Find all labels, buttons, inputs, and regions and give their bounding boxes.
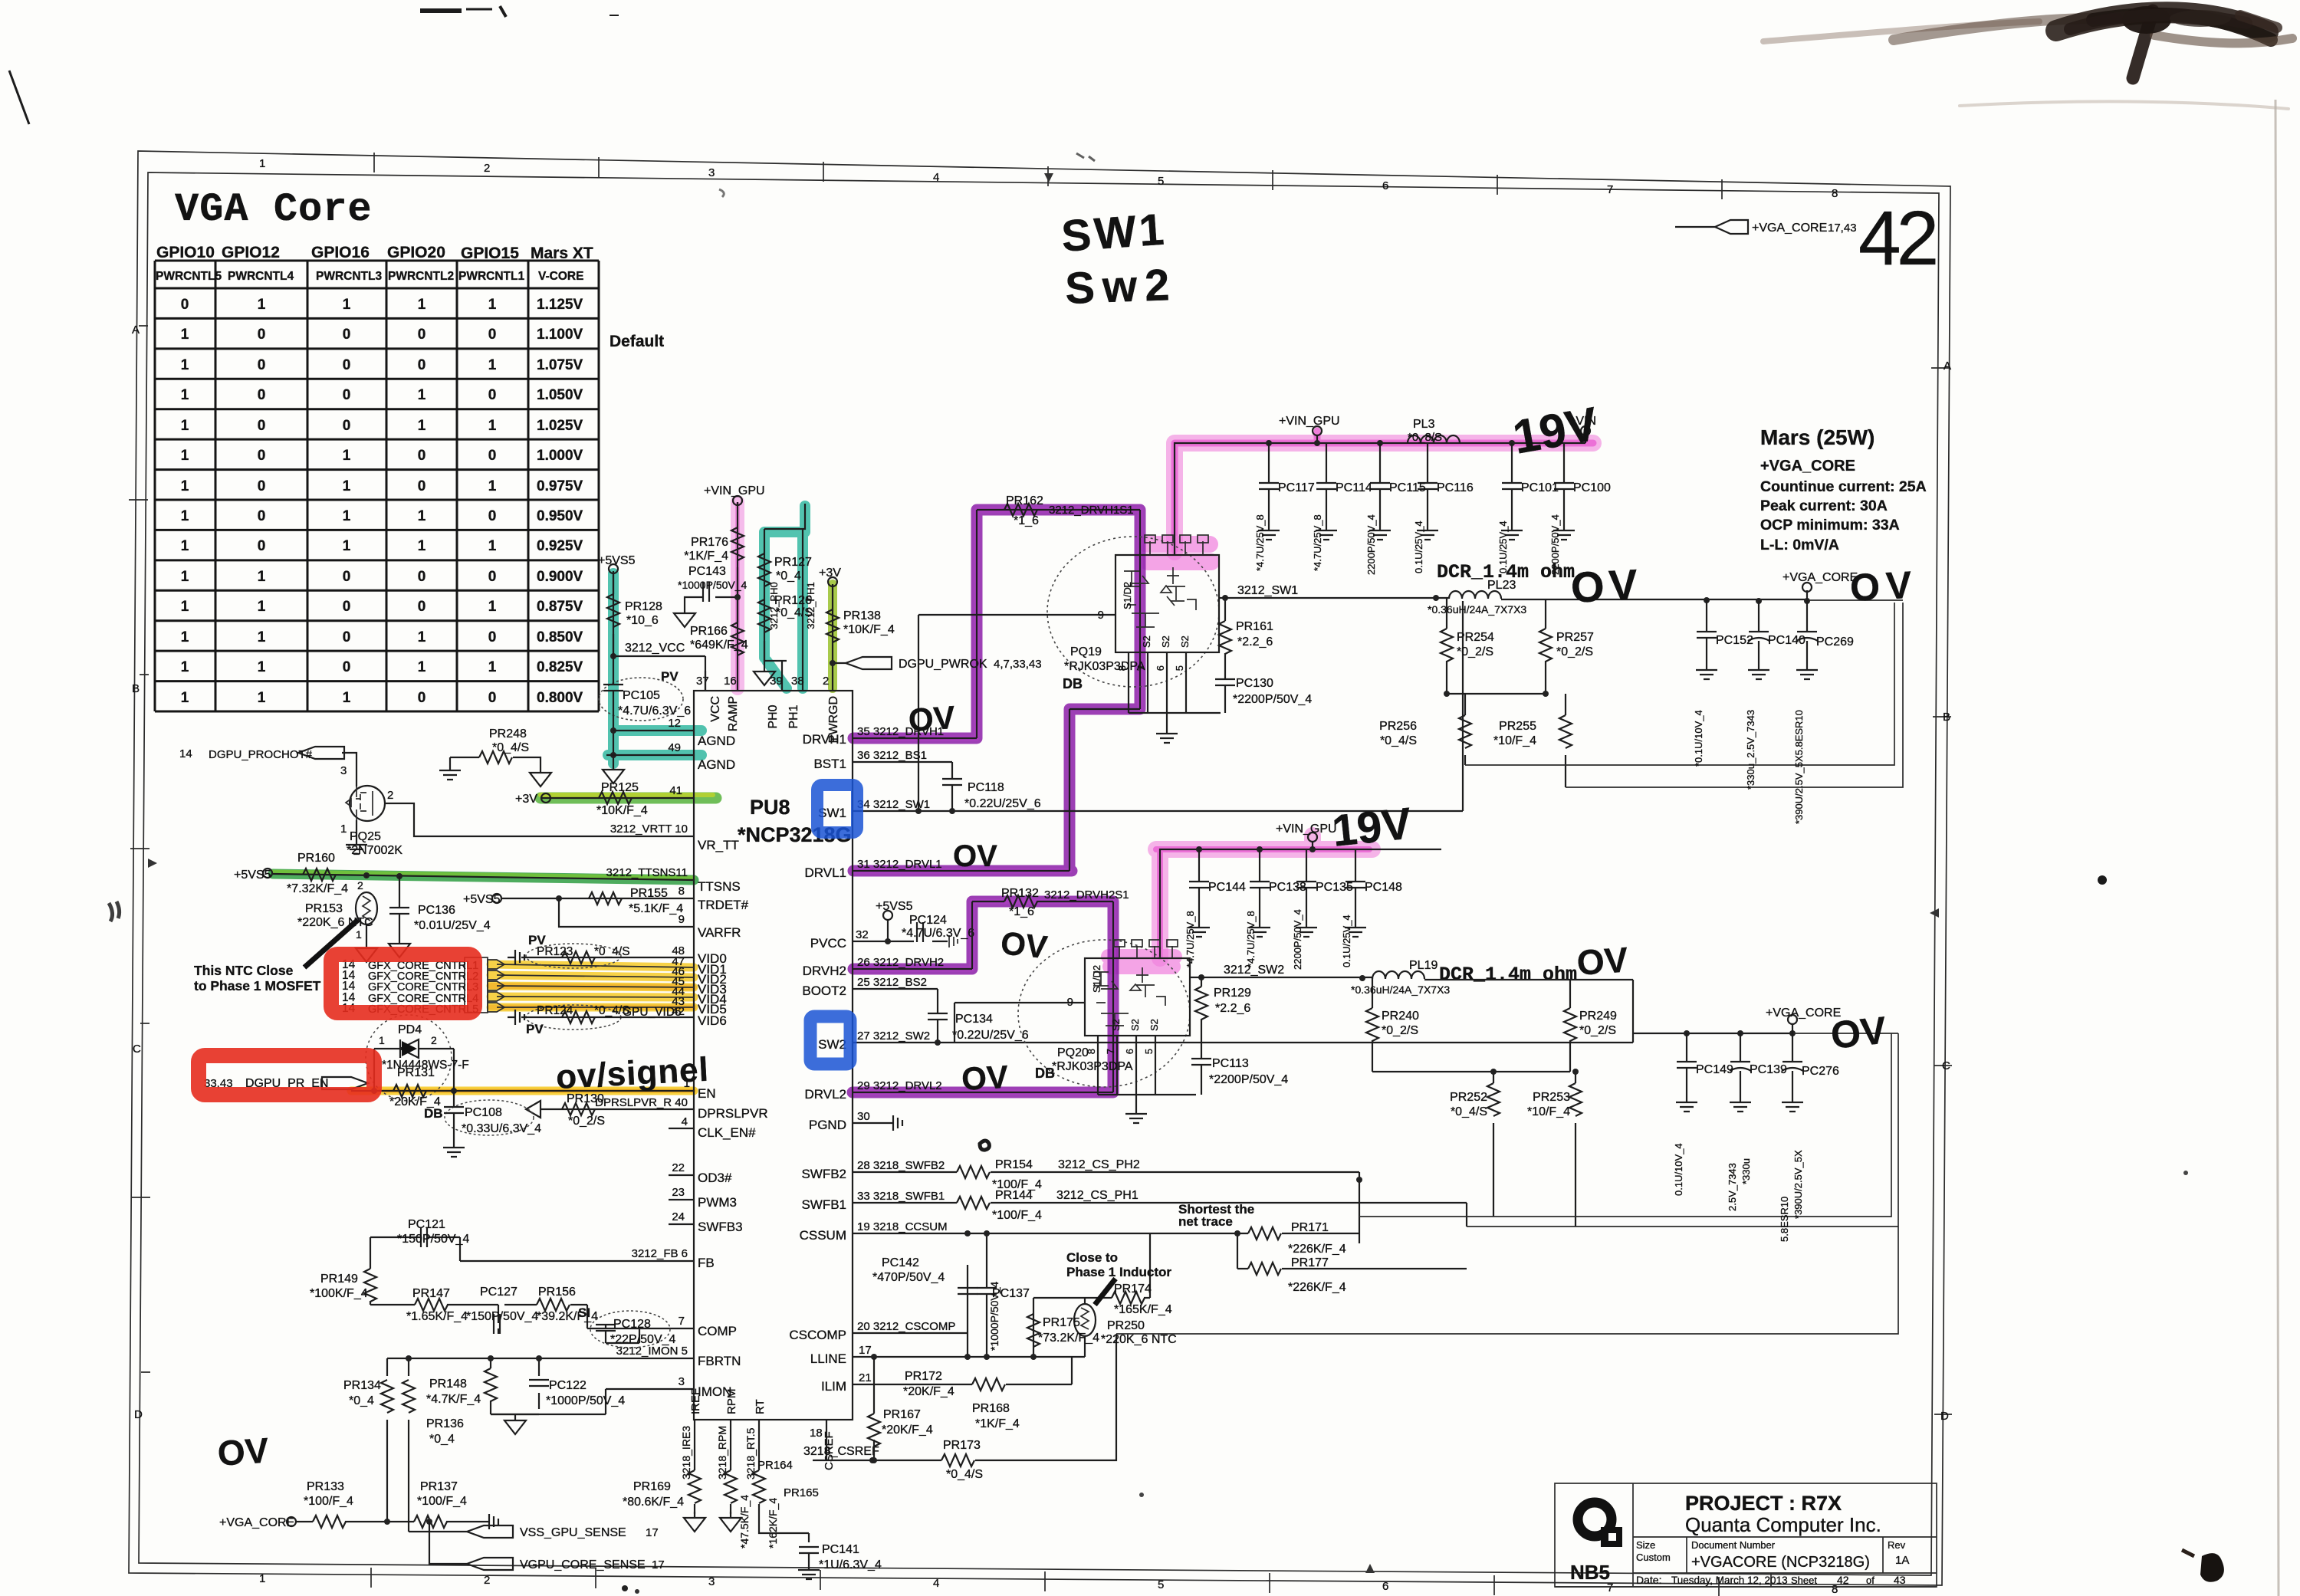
svg-text:0: 0 <box>343 387 351 403</box>
svg-text:0: 0 <box>488 569 497 585</box>
svg-text:PR254: PR254 <box>1457 631 1494 644</box>
svg-text:49: 49 <box>668 741 681 754</box>
svg-text:2: 2 <box>484 162 490 175</box>
svg-text:PR148: PR148 <box>429 1378 467 1391</box>
svg-text:S2: S2 <box>1141 635 1152 648</box>
svg-text:net trace: net trace <box>1178 1214 1233 1229</box>
svg-text:Quanta Computer Inc.: Quanta Computer Inc. <box>1685 1513 1881 1536</box>
svg-text:PR252: PR252 <box>1450 1091 1487 1104</box>
svg-text:+5VS5: +5VS5 <box>234 869 271 882</box>
svg-text:OV: OV <box>1829 1009 1888 1057</box>
svg-text:PVCC: PVCC <box>810 936 846 951</box>
svg-text:*390U/2.5V_5X: *390U/2.5V_5X <box>1792 1150 1804 1219</box>
svg-text:PC136: PC136 <box>418 904 455 917</box>
svg-text:37: 37 <box>696 675 709 688</box>
svg-text:PC276: PC276 <box>1802 1065 1839 1078</box>
svg-text:PR167: PR167 <box>883 1408 921 1421</box>
svg-text:17: 17 <box>859 1344 872 1357</box>
svg-text:*0_4: *0_4 <box>776 570 801 583</box>
svg-text:1: 1 <box>181 538 189 554</box>
svg-text:C: C <box>1942 1059 1950 1072</box>
svg-text:*4.7U/6.3V_6: *4.7U/6.3V_6 <box>902 927 974 940</box>
svg-text:4,7,33,43: 4,7,33,43 <box>994 658 1042 671</box>
svg-text:2200P/50V_4: 2200P/50V_4 <box>1549 514 1561 575</box>
svg-text:C: C <box>133 1043 141 1056</box>
svg-text:GPIO10: GPIO10 <box>156 244 215 261</box>
svg-text:DGPU_PWROK: DGPU_PWROK <box>899 658 987 671</box>
svg-text:1: 1 <box>343 690 351 706</box>
svg-text:0: 0 <box>258 357 266 373</box>
svg-text:*0.1U/10V_4: *0.1U/10V_4 <box>1693 710 1704 767</box>
svg-text:PC114: PC114 <box>1336 481 1372 494</box>
svg-text:1: 1 <box>181 387 189 403</box>
svg-text:PL3: PL3 <box>1413 418 1435 431</box>
svg-text:S2: S2 <box>1129 1019 1141 1031</box>
svg-text:PQ19: PQ19 <box>1070 645 1102 658</box>
svg-text:GPIO20: GPIO20 <box>387 244 445 261</box>
svg-text:*10_6: *10_6 <box>626 614 659 627</box>
svg-text:SW1: SW1 <box>1060 205 1168 261</box>
svg-text:3: 3 <box>708 1575 715 1588</box>
svg-text:*10K/F_4: *10K/F_4 <box>596 804 648 817</box>
svg-text:Date:: Date: <box>1636 1574 1661 1586</box>
svg-text:PC128: PC128 <box>613 1318 651 1331</box>
svg-text:1: 1 <box>343 448 351 464</box>
svg-text:PC142: PC142 <box>882 1256 919 1269</box>
svg-text:SWFB1: SWFB1 <box>801 1197 846 1212</box>
svg-text:1: 1 <box>181 508 189 524</box>
svg-text:1: 1 <box>258 297 266 313</box>
svg-text:L-L: 0mV/A: L-L: 0mV/A <box>1760 537 1839 553</box>
svg-text:Tuesday, March 12, 2013: Tuesday, March 12, 2013 <box>1671 1575 1788 1586</box>
svg-text:0.800V: 0.800V <box>537 690 583 706</box>
svg-text:41: 41 <box>669 784 682 797</box>
svg-text:0.950V: 0.950V <box>537 508 583 524</box>
svg-text:OV: OV <box>1569 560 1643 612</box>
svg-text:8: 8 <box>1832 187 1838 200</box>
svg-text:PWRCNTL5: PWRCNTL5 <box>156 270 222 283</box>
svg-text:1: 1 <box>181 448 189 464</box>
svg-text:3212_VRTT 10: 3212_VRTT 10 <box>610 823 688 836</box>
svg-text:PR171: PR171 <box>1291 1221 1329 1234</box>
svg-text:PR257: PR257 <box>1556 631 1594 644</box>
svg-text:PWRCNTL4: PWRCNTL4 <box>228 270 294 283</box>
svg-text:PR154: PR154 <box>995 1158 1033 1171</box>
svg-text:0: 0 <box>258 508 266 524</box>
svg-text:36 3212_BS1: 36 3212_BS1 <box>857 749 927 762</box>
svg-text:DRVL2: DRVL2 <box>805 1087 847 1102</box>
svg-text:29 3212_DRVL2: 29 3212_DRVL2 <box>857 1079 942 1092</box>
svg-text:+VGACORE (NCP3218G): +VGACORE (NCP3218G) <box>1691 1554 1870 1571</box>
svg-text:PC101: PC101 <box>1521 481 1559 494</box>
svg-text:VCC: VCC <box>709 696 722 722</box>
svg-text:*10K/F_4: *10K/F_4 <box>843 623 895 636</box>
svg-text:*0_4/S: *0_4/S <box>946 1468 983 1481</box>
svg-text:PR153: PR153 <box>305 902 343 915</box>
svg-text:*10/F_4: *10/F_4 <box>1493 734 1536 747</box>
svg-text:*RJK03P3DPA: *RJK03P3DPA <box>1064 660 1145 673</box>
svg-text:1: 1 <box>418 418 426 434</box>
svg-text:17: 17 <box>652 1558 665 1571</box>
svg-text:1: 1 <box>356 928 362 941</box>
svg-text:33 3218_SWFB1: 33 3218_SWFB1 <box>857 1190 945 1203</box>
svg-text:*150P/50V_4: *150P/50V_4 <box>397 1233 469 1246</box>
svg-text:+VGA_CORE: +VGA_CORE <box>1783 571 1858 584</box>
svg-text:DRVH1: DRVH1 <box>803 732 846 747</box>
svg-text:12: 12 <box>668 717 681 730</box>
svg-text:3218_IRE3: 3218_IRE3 <box>680 1426 692 1479</box>
svg-text:OD3#: OD3# <box>698 1171 732 1185</box>
svg-text:PR256: PR256 <box>1379 720 1417 733</box>
svg-text:19V: 19V <box>1330 798 1414 855</box>
svg-text:VGPU_CORE_SENSE: VGPU_CORE_SENSE <box>520 1558 646 1571</box>
svg-text:PWRCNTL1: PWRCNTL1 <box>458 270 524 283</box>
svg-text:*470P/50V_4: *470P/50V_4 <box>872 1271 945 1284</box>
svg-text:5: 5 <box>1158 1578 1164 1591</box>
svg-text:*0_4/S: *0_4/S <box>1380 734 1417 747</box>
svg-text:3212_CS_PH2: 3212_CS_PH2 <box>1058 1158 1140 1171</box>
svg-text:42: 42 <box>1837 1574 1849 1586</box>
svg-text:0: 0 <box>488 448 497 464</box>
svg-text:*1K/F_4: *1K/F_4 <box>684 550 728 563</box>
svg-text:+VGA_CORE: +VGA_CORE <box>1760 458 1855 475</box>
svg-text:0: 0 <box>488 327 497 343</box>
svg-text:PR125: PR125 <box>601 781 639 794</box>
svg-text:RPM: RPM <box>725 1389 738 1414</box>
svg-text:0: 0 <box>343 569 351 585</box>
svg-text:BOOT2: BOOT2 <box>802 984 846 998</box>
svg-text:4: 4 <box>933 171 939 184</box>
svg-text:1: 1 <box>343 297 351 313</box>
svg-text:PR168: PR168 <box>972 1402 1010 1415</box>
svg-text:1.125V: 1.125V <box>537 297 583 313</box>
svg-text:PC140: PC140 <box>1768 634 1806 647</box>
svg-text:1: 1 <box>181 327 189 343</box>
svg-text:*0_2/S: *0_2/S <box>568 1115 605 1128</box>
svg-text:PC141: PC141 <box>822 1543 859 1556</box>
svg-text:6: 6 <box>1124 1049 1135 1054</box>
svg-text:PC143: PC143 <box>688 565 726 578</box>
svg-text:2.5V_7343: 2.5V_7343 <box>1727 1163 1738 1211</box>
svg-text:PC138: PC138 <box>1269 881 1306 894</box>
svg-text:*1_6: *1_6 <box>1009 905 1034 918</box>
svg-text:0: 0 <box>418 357 426 373</box>
svg-text:GPIO12: GPIO12 <box>222 244 280 261</box>
svg-text:3212_SW2: 3212_SW2 <box>1224 964 1284 977</box>
svg-text:*1K/F_4: *1K/F_4 <box>975 1417 1020 1430</box>
svg-text:Custom: Custom <box>1636 1552 1671 1563</box>
svg-text:A: A <box>132 323 140 337</box>
svg-text:+5VS5: +5VS5 <box>876 900 913 913</box>
svg-text:0: 0 <box>258 478 266 494</box>
svg-text:0: 0 <box>418 327 426 343</box>
svg-text:1.100V: 1.100V <box>537 327 583 343</box>
svg-text:*0_4/S: *0_4/S <box>594 945 630 958</box>
svg-text:5.8ESR10: 5.8ESR10 <box>1779 1197 1790 1242</box>
svg-text:1: 1 <box>418 387 426 403</box>
svg-text:+3V: +3V <box>515 793 537 806</box>
svg-text:CLK_EN#: CLK_EN# <box>698 1125 756 1140</box>
svg-text:OV: OV <box>999 924 1049 965</box>
svg-text:0: 0 <box>418 599 426 615</box>
svg-text:CSCOMP: CSCOMP <box>789 1328 846 1342</box>
svg-text:SW2: SW2 <box>818 1037 846 1052</box>
svg-text:*0_4: *0_4 <box>429 1433 455 1446</box>
svg-text:*4.7U/6.3V_6: *4.7U/6.3V_6 <box>618 704 691 718</box>
svg-text:Rev: Rev <box>1888 1539 1906 1551</box>
svg-text:SI: SI <box>578 1305 590 1320</box>
svg-text:1: 1 <box>181 418 189 434</box>
svg-text:*0_2/S: *0_2/S <box>1457 645 1493 658</box>
svg-text:0.875V: 0.875V <box>537 599 583 615</box>
svg-text:PR249: PR249 <box>1579 1010 1617 1023</box>
svg-text:PR164: PR164 <box>757 1459 793 1472</box>
svg-text:TTSNS: TTSNS <box>698 879 741 894</box>
svg-text:1: 1 <box>181 478 189 494</box>
svg-text:*226K/F_4: *226K/F_4 <box>1288 1281 1346 1294</box>
svg-text:18: 18 <box>810 1427 823 1440</box>
svg-text:*100/F_4: *100/F_4 <box>304 1495 353 1508</box>
svg-text:1: 1 <box>259 1572 265 1585</box>
svg-text:1.025V: 1.025V <box>537 418 583 434</box>
svg-text:1.050V: 1.050V <box>537 387 583 403</box>
svg-text:*47.5K/F_4: *47.5K/F_4 <box>738 1495 751 1548</box>
svg-text:1.075V: 1.075V <box>537 357 583 373</box>
svg-text:NB5: NB5 <box>1570 1561 1610 1584</box>
svg-text:Close to: Close to <box>1066 1250 1118 1265</box>
svg-text:1: 1 <box>488 538 497 554</box>
svg-text:GPIO15: GPIO15 <box>461 245 519 262</box>
svg-text:PR177: PR177 <box>1291 1256 1329 1269</box>
svg-text:*0_2/S: *0_2/S <box>1382 1024 1418 1037</box>
svg-text:*100K/F_4: *100K/F_4 <box>310 1287 368 1300</box>
svg-text:D: D <box>134 1408 143 1421</box>
svg-text:OV: OV <box>953 839 997 873</box>
svg-text:31 3212_DRVL1: 31 3212_DRVL1 <box>857 858 942 871</box>
svg-text:PGND: PGND <box>809 1118 846 1132</box>
svg-text:*649K/F_4: *649K/F_4 <box>690 639 748 652</box>
svg-text:ILIM: ILIM <box>821 1379 846 1394</box>
svg-text:*1000P/50V_4: *1000P/50V_4 <box>988 1281 1001 1351</box>
svg-text:1: 1 <box>488 478 497 494</box>
svg-text:S2: S2 <box>1110 1019 1122 1031</box>
svg-text:*0_8/S: *0_8/S <box>1408 431 1442 444</box>
svg-text:TRDET#: TRDET# <box>698 898 749 912</box>
svg-text:PC135: PC135 <box>1316 881 1353 894</box>
svg-text:22: 22 <box>672 1161 685 1174</box>
svg-text:*0.22U/25V_6: *0.22U/25V_6 <box>964 797 1041 810</box>
svg-text:OV: OV <box>1849 563 1919 609</box>
svg-text:24: 24 <box>672 1210 685 1223</box>
svg-text:of: of <box>1866 1575 1875 1586</box>
svg-text:1: 1 <box>258 659 266 675</box>
svg-text:0.825V: 0.825V <box>537 659 583 675</box>
svg-text:PR129: PR129 <box>1214 987 1251 1000</box>
svg-text:FBRTN: FBRTN <box>698 1354 741 1368</box>
svg-text:DRVH2: DRVH2 <box>803 964 846 978</box>
svg-text:PC113: PC113 <box>1212 1057 1249 1070</box>
svg-text:*2N7002K: *2N7002K <box>347 844 402 857</box>
svg-text:PC152: PC152 <box>1716 634 1753 647</box>
svg-text:PR253: PR253 <box>1533 1091 1570 1104</box>
svg-text:V-CORE: V-CORE <box>538 270 583 283</box>
svg-text:4: 4 <box>682 1115 688 1128</box>
svg-text:*220K_6 NTC: *220K_6 NTC <box>1101 1333 1177 1346</box>
svg-text:*1000P/50V_4: *1000P/50V_4 <box>678 579 747 591</box>
svg-text:0.1U/25V_4: 0.1U/25V_4 <box>1341 915 1352 967</box>
svg-text:2: 2 <box>357 879 363 892</box>
svg-text:DCR_1.4m ohm: DCR_1.4m ohm <box>1439 964 1577 986</box>
svg-text:*2200P/50V_4: *2200P/50V_4 <box>1233 693 1312 706</box>
svg-text:PR175: PR175 <box>1043 1316 1080 1329</box>
svg-text:Sheet: Sheet <box>1791 1575 1817 1586</box>
svg-text:9: 9 <box>1067 996 1073 1009</box>
svg-text:0.925V: 0.925V <box>537 538 583 554</box>
svg-text:+VIN_GPU: +VIN_GPU <box>1279 415 1340 428</box>
svg-text:32: 32 <box>856 928 869 941</box>
svg-text:*1.65K/F_4: *1.65K/F_4 <box>406 1310 468 1323</box>
svg-text:2: 2 <box>823 675 829 688</box>
svg-text:DB: DB <box>424 1106 443 1121</box>
svg-text:*0_2/S: *0_2/S <box>1556 645 1593 658</box>
svg-text:PR127: PR127 <box>774 556 812 569</box>
svg-text:B: B <box>1943 711 1950 724</box>
svg-text:*2200P/50V_4: *2200P/50V_4 <box>1209 1073 1288 1086</box>
svg-text:3212_TTSNS11: 3212_TTSNS11 <box>606 866 688 879</box>
svg-text:0.900V: 0.900V <box>537 569 583 585</box>
svg-text:VARFR: VARFR <box>698 925 741 940</box>
svg-text:Document Number: Document Number <box>1691 1539 1776 1551</box>
svg-text:*0.01U/25V_4: *0.01U/25V_4 <box>414 919 491 932</box>
svg-text:9: 9 <box>1098 609 1104 622</box>
svg-text:*0.33U/6.3V_4: *0.33U/6.3V_4 <box>462 1122 541 1135</box>
svg-text:+3V: +3V <box>819 566 841 580</box>
svg-text:RAMP: RAMP <box>727 696 740 731</box>
svg-text:COMP: COMP <box>698 1324 737 1338</box>
svg-text:6: 6 <box>1155 665 1166 671</box>
svg-text:PWRCNTL3: PWRCNTL3 <box>316 270 382 283</box>
svg-text:*330u_2.5V_7343: *330u_2.5V_7343 <box>1745 710 1756 790</box>
svg-text:PWM3: PWM3 <box>698 1195 737 1210</box>
svg-text:PR165: PR165 <box>784 1486 819 1499</box>
svg-text:5: 5 <box>1174 665 1185 671</box>
svg-text:5: 5 <box>1158 175 1164 188</box>
svg-text:*RJK03P3DPA: *RJK03P3DPA <box>1052 1060 1133 1073</box>
svg-text:2200P/50V_4: 2200P/50V_4 <box>1292 909 1303 970</box>
svg-text:*7.32K/F_4: *7.32K/F_4 <box>287 882 348 895</box>
svg-text:S1/D2: S1/D2 <box>1122 582 1133 609</box>
svg-text:2: 2 <box>387 789 393 802</box>
svg-text:1: 1 <box>181 659 189 675</box>
svg-text:PC105: PC105 <box>623 689 660 702</box>
svg-text:S2: S2 <box>1179 635 1191 648</box>
svg-text:*80.6K/F_4: *80.6K/F_4 <box>623 1496 684 1509</box>
svg-text:0.1U/25V_4: 0.1U/25V_4 <box>1497 521 1509 573</box>
svg-text:*0_4/S: *0_4/S <box>776 606 813 619</box>
svg-text:*4.7K/F_4: *4.7K/F_4 <box>426 1393 481 1406</box>
svg-text:3212_IMON 5: 3212_IMON 5 <box>616 1345 688 1358</box>
svg-text:*0.36uH/24A_7X7X3: *0.36uH/24A_7X7X3 <box>1428 603 1526 616</box>
svg-text:1: 1 <box>258 599 266 615</box>
svg-text:PC144: PC144 <box>1208 881 1246 894</box>
svg-text:1: 1 <box>418 508 426 524</box>
svg-text:7: 7 <box>1105 1049 1116 1054</box>
svg-text:1: 1 <box>488 357 497 373</box>
svg-text:16: 16 <box>724 675 737 688</box>
svg-text:VID6: VID6 <box>698 1013 727 1028</box>
svg-text:GPIO16: GPIO16 <box>311 244 370 261</box>
svg-text:PR169: PR169 <box>633 1480 671 1493</box>
svg-text:PR174: PR174 <box>1114 1282 1152 1296</box>
svg-text:AGND: AGND <box>698 734 735 748</box>
svg-text:S2: S2 <box>1148 1019 1160 1031</box>
svg-text:8: 8 <box>678 885 685 898</box>
svg-text:0: 0 <box>418 448 426 464</box>
svg-text:Mars (25W): Mars (25W) <box>1760 425 1875 449</box>
svg-text:DPRSLPVR_R 40: DPRSLPVR_R 40 <box>595 1096 688 1109</box>
svg-text:+VGA_CORE: +VGA_CORE <box>219 1516 294 1529</box>
svg-text:6: 6 <box>1382 1580 1388 1593</box>
svg-text:1A: 1A <box>1895 1554 1909 1567</box>
svg-text:OCP minimum: 33A: OCP minimum: 33A <box>1760 517 1900 534</box>
svg-text:38: 38 <box>791 675 804 688</box>
svg-text:PR128: PR128 <box>625 600 662 613</box>
svg-text:B: B <box>132 682 140 695</box>
svg-text:0.850V: 0.850V <box>537 629 583 645</box>
svg-text:0: 0 <box>488 508 497 524</box>
svg-text:PC100: PC100 <box>1573 481 1611 494</box>
svg-text:3212_CS_PH1: 3212_CS_PH1 <box>1056 1189 1138 1202</box>
svg-text:VGA Core: VGA Core <box>175 187 373 232</box>
svg-text:PC108: PC108 <box>465 1106 502 1119</box>
svg-text:3212_DRVH2S1: 3212_DRVH2S1 <box>1044 888 1129 901</box>
svg-text:PH0: PH0 <box>767 704 780 728</box>
svg-text:+5VS5: +5VS5 <box>598 554 636 567</box>
svg-text:1: 1 <box>343 478 351 494</box>
svg-text:0: 0 <box>343 327 351 343</box>
svg-text:PR124: PR124 <box>537 1004 573 1017</box>
svg-text:1: 1 <box>258 569 266 585</box>
svg-text:2200P/50V_4: 2200P/50V_4 <box>1365 514 1377 575</box>
svg-text:1: 1 <box>488 418 497 434</box>
svg-text:Mars XT: Mars XT <box>531 245 593 262</box>
svg-text:*0_2/S: *0_2/S <box>1579 1024 1616 1037</box>
svg-text:SWFB2: SWFB2 <box>801 1167 846 1181</box>
svg-text:VSS_GPU_SENSE: VSS_GPU_SENSE <box>520 1526 626 1539</box>
svg-text:DB: DB <box>1035 1066 1055 1081</box>
svg-text:DPRSLPVR: DPRSLPVR <box>698 1106 768 1121</box>
svg-text:D: D <box>1940 1410 1949 1423</box>
svg-text:IREF: IREF <box>689 1388 702 1414</box>
svg-text:DGPU_PROCHOT#: DGPU_PROCHOT# <box>209 748 313 761</box>
svg-text:PR172: PR172 <box>905 1370 942 1383</box>
svg-text:0: 0 <box>258 448 266 464</box>
svg-text:*226K/F_4: *226K/F_4 <box>1288 1243 1346 1256</box>
svg-text:PR138: PR138 <box>843 609 881 622</box>
svg-text:PC121: PC121 <box>408 1218 445 1231</box>
svg-text:Default: Default <box>609 333 664 350</box>
svg-text:*73.2K/F_4: *73.2K/F_4 <box>1038 1332 1099 1345</box>
svg-text:PC127: PC127 <box>480 1286 517 1299</box>
svg-text:PR132: PR132 <box>1001 887 1039 900</box>
svg-text:PC116: PC116 <box>1437 481 1474 494</box>
svg-text:*220K_6 NTC: *220K_6 NTC <box>297 916 373 929</box>
svg-text:7: 7 <box>678 1315 685 1328</box>
svg-text:1: 1 <box>379 1034 385 1046</box>
svg-text:PC134: PC134 <box>955 1013 993 1026</box>
svg-text:*4.7U/25V_8: *4.7U/25V_8 <box>1254 514 1266 571</box>
svg-text:PR162: PR162 <box>1006 494 1043 507</box>
